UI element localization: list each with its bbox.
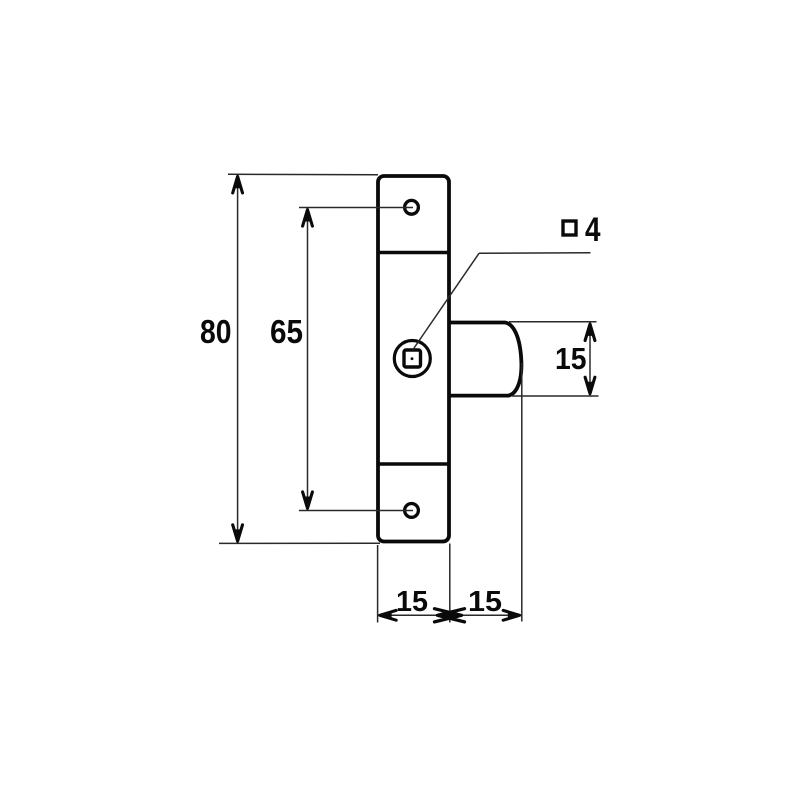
faceplate upper divider line — [378, 251, 449, 255]
bottom dimension text 15 right — [468, 586, 502, 618]
svg-text:15: 15 — [396, 586, 428, 618]
bottom dimension arrow left — [378, 610, 397, 620]
spindle boss circle — [394, 341, 430, 377]
dimension 65 arrow down — [303, 492, 313, 511]
dimension 80 arrow down — [233, 525, 243, 544]
bottom right extension line — [521, 363, 523, 622]
dimension 65 text — [270, 314, 303, 351]
dimension 80 arrow up — [233, 174, 243, 193]
knob (spindle hub side view) — [449, 323, 521, 396]
svg-text:80: 80 — [200, 314, 232, 351]
bottom dimension text 15 left — [396, 586, 428, 618]
bottom dimension arrow right — [503, 610, 522, 620]
bottom screw hole — [405, 504, 419, 518]
bottom dimension line — [378, 614, 522, 616]
dimension 65 arrow up — [303, 208, 313, 227]
dimension 65 extension line top — [299, 207, 413, 209]
faceplate lower divider line — [378, 462, 449, 466]
top screw hole — [405, 200, 419, 214]
dimension 15 right arrow down — [585, 377, 595, 396]
square spindle hole — [404, 350, 421, 367]
dimension 80 text — [200, 314, 232, 351]
label text 4 — [585, 211, 601, 249]
bottom left extension line — [377, 545, 379, 623]
svg-text:65: 65 — [270, 314, 303, 351]
dimension 15 right text — [555, 341, 587, 376]
dimension 15 right line — [589, 322, 591, 395]
svg-text:4: 4 — [585, 211, 601, 249]
dimension 80 extension line top — [228, 173, 378, 175]
dimension 15 right arrow up — [585, 322, 595, 341]
dimension 65 line — [307, 208, 309, 510]
dimension 65 extension line bottom — [299, 510, 413, 512]
bottom dimension crossing arrows at middle — [435, 609, 465, 622]
svg-text:15: 15 — [468, 586, 502, 618]
dimension 80 line — [237, 175, 239, 543]
dimension 15 right extension line top — [509, 321, 597, 323]
svg-text:15: 15 — [555, 341, 587, 376]
faceplate body — [378, 176, 449, 542]
dimension 15 right extension line bottom — [512, 395, 599, 397]
dimension 80 extension line bottom — [219, 542, 380, 544]
leader line for square hole — [413, 253, 591, 350]
square symbol of label — [563, 221, 576, 235]
bottom middle extension line — [449, 544, 451, 623]
